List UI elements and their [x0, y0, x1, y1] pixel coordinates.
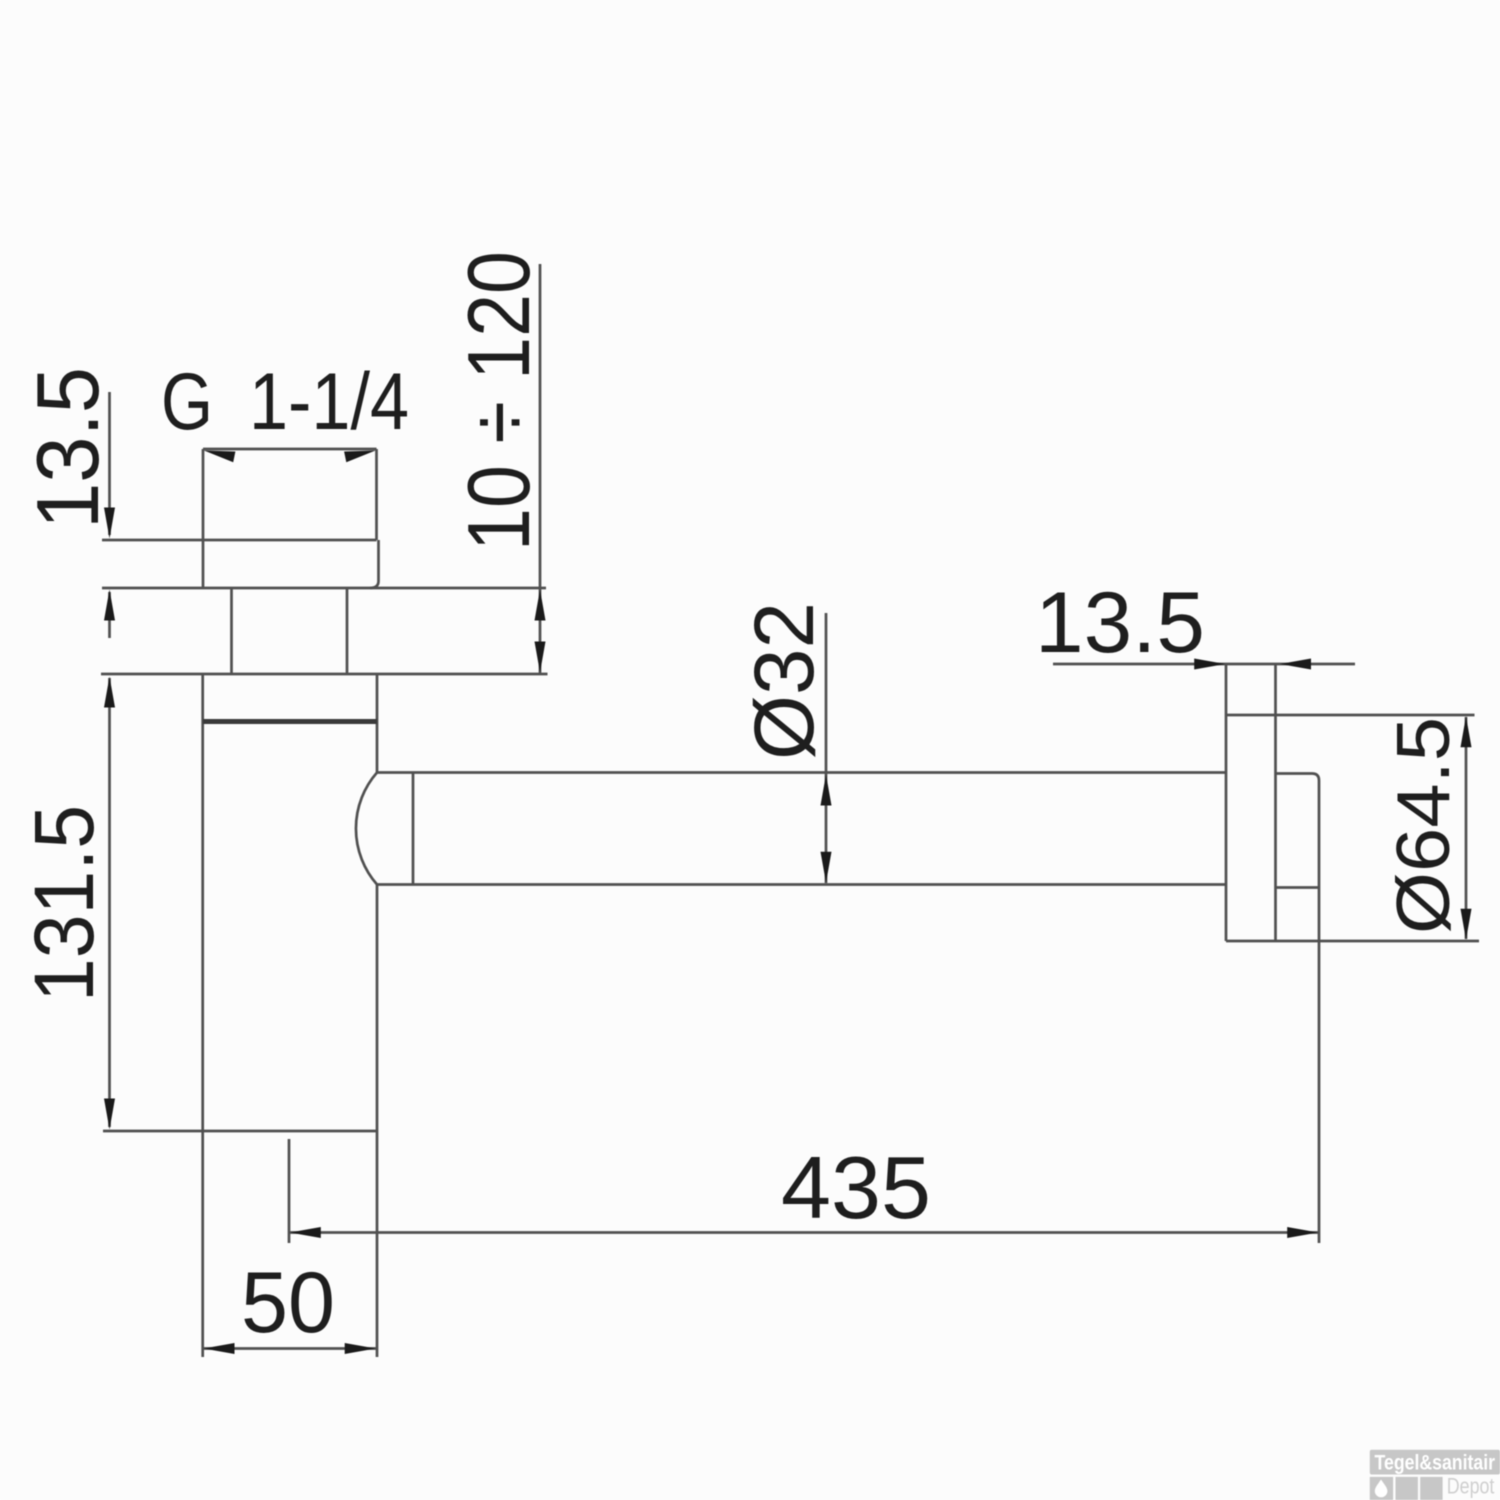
dimension 10÷120 line: [539, 264, 542, 674]
svg-text:Depot: Depot: [1447, 1474, 1495, 1499]
pipe stub top: [1276, 774, 1320, 781]
dimension 50 arrows: [204, 1343, 376, 1354]
svg-text:13.5: 13.5: [1035, 575, 1205, 671]
dimension Ø64.5 arrows: [1461, 716, 1472, 940]
wall flange top line: [1226, 714, 1475, 717]
dimension 435 left extension: [288, 1139, 291, 1243]
nut bottom line with extensions: [102, 587, 546, 590]
flange top line with extensions: [101, 673, 548, 676]
svg-text:Ø64.5: Ø64.5: [1381, 717, 1465, 934]
neck between nut and body: [232, 588, 348, 674]
dimension 131.5 line: [108, 678, 111, 1127]
dimension 13.5 left line: [108, 392, 111, 638]
dimension 13.5 left arrows: [104, 508, 115, 621]
svg-text:10 ÷ 120: 10 ÷ 120: [449, 251, 548, 551]
dimension Ø64.5 line: [1465, 717, 1468, 939]
svg-text:13.5: 13.5: [18, 367, 117, 529]
body left edge and 50-dim left extension: [201, 674, 204, 1357]
dimension Ø32 arrows: [821, 775, 832, 883]
pipe stub bottom: [1276, 886, 1320, 889]
watermark square 1: [1370, 1477, 1393, 1500]
svg-text:50: 50: [241, 1255, 335, 1351]
body right edge upper: [376, 674, 379, 773]
horizontal pipe bottom line: [377, 883, 1226, 886]
wall flange right edge with extension: [1274, 664, 1277, 941]
nut top line with left extension: [102, 539, 377, 542]
svg-text:1-1/4: 1-1/4: [249, 357, 409, 447]
dimension 131.5 arrows: [104, 677, 115, 1130]
watermark droplet: [1375, 1480, 1388, 1498]
pipe stub end and 435 right extension: [1318, 781, 1321, 1244]
svg-text:131.5: 131.5: [17, 805, 111, 1002]
nut body: [203, 540, 379, 588]
svg-text:Tegel&sanitair: Tegel&sanitair: [1375, 1452, 1496, 1475]
dimension 13.5 right arrows: [1194, 659, 1311, 670]
dimension G 1-1/4 arrows: [204, 451, 376, 463]
svg-text:G: G: [161, 357, 213, 447]
dimension Ø32 line: [825, 613, 828, 883]
body bottom line: [103, 1130, 377, 1133]
pipe dome end arc: [356, 773, 377, 885]
dimension 10÷120 arrows: [535, 590, 546, 673]
dimension 435 line: [289, 1231, 1319, 1234]
dimension 50 line: [203, 1347, 377, 1350]
flange bottom thick line: [203, 719, 377, 724]
dimension 435 arrows: [290, 1227, 1318, 1238]
wall flange left edge with extension: [1225, 664, 1228, 941]
watermark square 2: [1396, 1477, 1418, 1500]
wall flange bottom line: [1226, 940, 1479, 943]
body right edge lower and 50-dim right extension: [376, 885, 379, 1358]
svg-text:Ø32: Ø32: [737, 602, 831, 760]
watermark square 3: [1420, 1477, 1442, 1500]
svg-text:435: 435: [781, 1138, 931, 1237]
watermark banner: [1370, 1450, 1500, 1475]
horizontal pipe top line: [377, 771, 1226, 774]
dimension 13.5 right line: [1053, 663, 1355, 666]
pipe joint line: [412, 773, 415, 885]
tail pipe (vertical inlet pipe): [203, 449, 377, 540]
